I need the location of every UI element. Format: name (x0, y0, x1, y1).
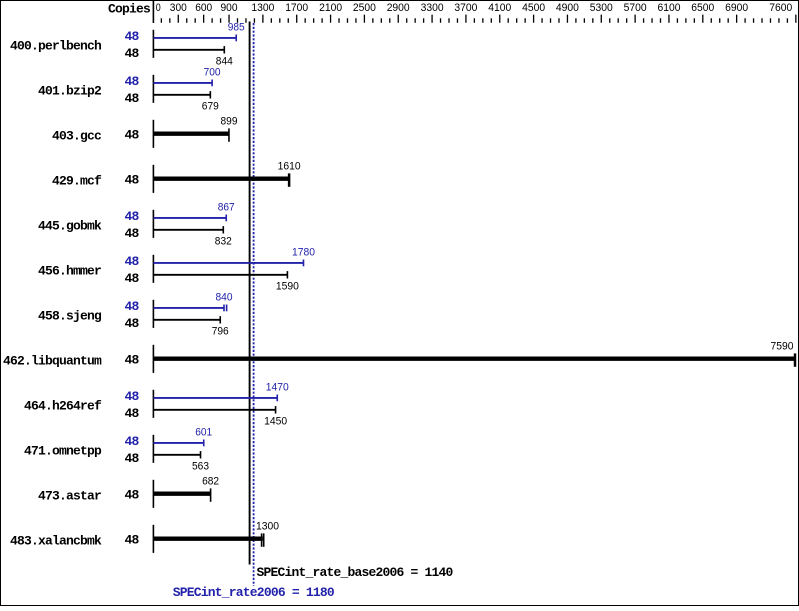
benchmark 462.libquantum (3, 341, 795, 373)
svg-text:4500: 4500 (522, 2, 545, 14)
svg-text:400.perlbench: 400.perlbench (10, 38, 102, 53)
svg-text:4100: 4100 (488, 2, 511, 14)
svg-text:48: 48 (124, 488, 139, 503)
benchmark 401.bzip2 (38, 67, 221, 113)
svg-text:867: 867 (218, 202, 235, 214)
svg-text:985: 985 (228, 22, 245, 34)
svg-text:899: 899 (221, 116, 238, 128)
peak result annotation (173, 585, 335, 600)
peak median dotted line 1180 (253, 23, 255, 586)
benchmark 471.omnetpp (24, 427, 212, 473)
svg-text:0: 0 (156, 2, 161, 14)
svg-text:1450: 1450 (264, 416, 287, 428)
svg-text:2500: 2500 (353, 2, 376, 14)
axis scale labels (156, 2, 793, 14)
benchmark 400.perlbench (10, 22, 245, 68)
benchmark 403.gcc (52, 116, 238, 148)
svg-text:48: 48 (124, 353, 139, 368)
svg-text:2900: 2900 (387, 2, 410, 14)
benchmark 445.gobmk (38, 202, 235, 248)
svg-text:563: 563 (192, 461, 209, 473)
benchmark 464.h264ref (24, 382, 289, 428)
svg-text:6500: 6500 (691, 2, 714, 14)
svg-text:840: 840 (216, 292, 233, 304)
svg-text:5300: 5300 (590, 2, 613, 14)
benchmark 429.mcf (52, 161, 301, 193)
svg-text:48: 48 (124, 406, 139, 421)
svg-text:900: 900 (221, 2, 238, 14)
svg-text:3300: 3300 (421, 2, 444, 14)
svg-text:48: 48 (124, 533, 139, 548)
svg-text:403.gcc: 403.gcc (52, 128, 102, 143)
svg-text:1700: 1700 (285, 2, 308, 14)
base median line 1140 (249, 22, 251, 565)
svg-text:456.hmmer: 456.hmmer (38, 263, 101, 278)
svg-text:601: 601 (195, 427, 212, 439)
svg-text:48: 48 (124, 226, 139, 241)
base result annotation (257, 565, 454, 580)
svg-text:6900: 6900 (725, 2, 748, 14)
svg-text:679: 679 (202, 101, 219, 113)
svg-text:48: 48 (124, 74, 139, 89)
svg-text:7600: 7600 (769, 2, 792, 14)
svg-text:48: 48 (124, 46, 139, 61)
svg-text:48: 48 (124, 29, 139, 44)
svg-text:1300: 1300 (256, 521, 279, 533)
svg-text:4900: 4900 (556, 2, 579, 14)
svg-text:SPECint_rate2006 = 1180: SPECint_rate2006 = 1180 (173, 585, 335, 600)
svg-text:1610: 1610 (278, 161, 301, 173)
svg-text:48: 48 (124, 209, 139, 224)
svg-text:429.mcf: 429.mcf (52, 173, 102, 188)
svg-text:SPECint_rate_base2006 = 1140: SPECint_rate_base2006 = 1140 (257, 565, 454, 580)
svg-text:48: 48 (124, 299, 139, 314)
svg-text:473.astar: 473.astar (38, 488, 101, 503)
svg-text:483.xalancbmk: 483.xalancbmk (10, 533, 102, 548)
svg-text:1470: 1470 (266, 382, 289, 394)
svg-text:48: 48 (124, 316, 139, 331)
svg-text:3700: 3700 (454, 2, 477, 14)
svg-text:48: 48 (124, 389, 139, 404)
svg-text:462.libquantum: 462.libquantum (3, 353, 102, 368)
svg-text:300: 300 (170, 2, 187, 14)
svg-text:700: 700 (204, 67, 221, 79)
y-axis line (152, 1, 154, 23)
svg-text:2100: 2100 (319, 2, 342, 14)
svg-text:401.bzip2: 401.bzip2 (38, 83, 102, 98)
Copies header (108, 2, 151, 17)
svg-text:6100: 6100 (658, 2, 681, 14)
svg-text:48: 48 (124, 434, 139, 449)
svg-text:48: 48 (124, 173, 139, 188)
svg-text:48: 48 (124, 451, 139, 466)
svg-text:464.h264ref: 464.h264ref (24, 398, 102, 413)
benchmark 473.astar (38, 476, 219, 508)
svg-text:48: 48 (124, 254, 139, 269)
svg-text:1590: 1590 (276, 281, 299, 293)
benchmark 458.sjeng (38, 292, 233, 338)
svg-text:Copies: Copies (108, 2, 151, 17)
benchmark 456.hmmer (38, 247, 315, 293)
svg-text:48: 48 (124, 271, 139, 286)
svg-text:600: 600 (195, 2, 212, 14)
svg-text:471.omnetpp: 471.omnetpp (24, 443, 102, 458)
svg-text:7590: 7590 (771, 341, 794, 353)
svg-text:832: 832 (215, 236, 232, 248)
svg-text:1300: 1300 (251, 2, 274, 14)
svg-text:445.gobmk: 445.gobmk (38, 218, 102, 233)
svg-text:682: 682 (202, 476, 219, 488)
svg-text:1780: 1780 (292, 247, 315, 259)
svg-text:796: 796 (212, 326, 229, 338)
svg-text:48: 48 (124, 91, 139, 106)
svg-text:458.sjeng: 458.sjeng (38, 308, 102, 323)
svg-text:48: 48 (124, 128, 139, 143)
svg-text:5700: 5700 (624, 2, 647, 14)
axis ticks (161, 15, 796, 23)
benchmark 483.xalancbmk (10, 521, 279, 553)
